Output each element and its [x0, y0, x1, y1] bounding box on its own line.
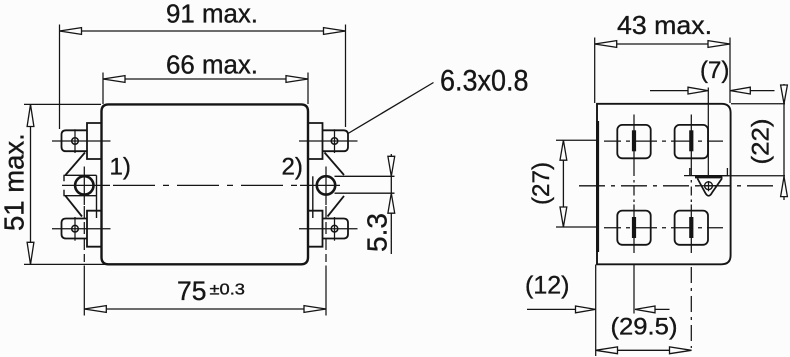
- svg-text:(29.5): (29.5): [611, 314, 678, 341]
- bottom-left tab hole: [72, 225, 79, 232]
- top-right tab crosshair vertical: [334, 129, 336, 153]
- svg-text:(27): (27): [528, 162, 555, 205]
- dimension (27) bottom extension: [556, 226, 597, 228]
- dimension 66 max right arrow: [286, 76, 308, 83]
- dimension 43 max left extension: [594, 38, 596, 104]
- dimension 91 max line: [60, 30, 346, 32]
- filter body outline: [102, 104, 309, 264]
- column 1 extension below body: [633, 265, 635, 314]
- tab A blade: [632, 130, 636, 151]
- dimension 75 left arrow: [84, 306, 106, 313]
- top-left faston tab: [62, 130, 88, 151]
- leader line 6.3x0.8: [348, 83, 434, 134]
- svg-text:91 max.: 91 max.: [166, 1, 258, 29]
- svg-text:(22): (22): [748, 119, 775, 165]
- column 1 center line lower: [633, 205, 635, 254]
- svg-text:6.3x0.8: 6.3x0.8: [440, 65, 529, 98]
- right flange slot bottom edge + 5.3 extension: [335, 192, 395, 194]
- dimension 66 max line: [103, 78, 308, 80]
- top-right tab hole: [331, 138, 338, 145]
- dimension 91 max left extension: [59, 25, 61, 130]
- dimension (29.5) line: [596, 349, 692, 351]
- horizontal center line right view: [579, 185, 778, 187]
- left flange slot top edge: [64, 175, 97, 181]
- bottom-left terminal step: [87, 211, 102, 247]
- right mounting hole extension dashed: [325, 206, 327, 262]
- left flange slot bottom edge: [64, 190, 97, 196]
- tab C (bottom-left) outline: [617, 211, 650, 245]
- right flange plate edge: [312, 176, 314, 218]
- dimension (22) line: [783, 84, 785, 200]
- dimension (7) left tail: [650, 90, 708, 92]
- top-right terminal step: [308, 123, 323, 159]
- side body left thick edge: [596, 121, 599, 252]
- right flange slot top edge + 5.3 extension: [335, 175, 395, 177]
- top-right faston tab: [323, 130, 349, 151]
- top-left tab crosshair horizontal: [52, 140, 111, 142]
- dimension (12) left tail: [527, 308, 596, 310]
- body top edge extension to (22): [731, 103, 785, 105]
- bottom-right tab hole: [331, 225, 338, 232]
- bottom-right tab crosshair vertical: [334, 217, 336, 241]
- column 2 center line middle dashed: [690, 167, 692, 205]
- svg-text:5.3: 5.3: [362, 213, 393, 252]
- dimension 66 max right extension: [307, 73, 309, 105]
- svg-text:±0.3: ±0.3: [210, 282, 246, 299]
- column 2 extension below body dashed: [690, 267, 692, 348]
- tab B blade: [689, 130, 693, 151]
- right flange lower slant: [328, 196, 345, 217]
- side body outline: [597, 104, 731, 264]
- dimension 91 max left arrow: [60, 28, 82, 35]
- dimension (29.5) right arrow: [670, 347, 692, 354]
- top row center line: [604, 140, 723, 142]
- dimension 5.3 bottom arrow: [388, 193, 395, 213]
- dimension 91 max right extension: [345, 25, 347, 128]
- dimension 66 max left extension: [102, 73, 104, 105]
- dimension (29.5) left arrow: [596, 347, 618, 354]
- earth tab blade bar: [695, 176, 723, 179]
- earth bar extension to (22): [723, 175, 785, 177]
- dimension 75 right arrow: [304, 306, 326, 313]
- left mounting hole extension dashed: [83, 206, 85, 262]
- column 2 center line upper: [690, 115, 692, 168]
- dimension (27) line: [562, 140, 564, 227]
- right hole crosshair: [300, 167, 340, 206]
- earth tab slot wall ticks: [690, 168, 728, 176]
- dimension (22) top arrow: [781, 85, 788, 104]
- dimension (27) top extension: [556, 139, 597, 141]
- dimension (12) right tail: [635, 308, 670, 310]
- left flange mounting hole: [75, 176, 93, 194]
- bottom-right tab crosshair horizontal: [299, 228, 358, 230]
- bottom-left faston tab: [62, 219, 88, 239]
- dimension (27) top arrow: [560, 140, 567, 160]
- earth tab plate line: [684, 175, 729, 177]
- dimension 51 max bottom extension: [24, 263, 107, 265]
- dimension (7) right tail: [730, 90, 774, 92]
- dimension (12) right arrow: [635, 306, 655, 313]
- left flange plate edge: [96, 175, 98, 218]
- column 1 center line middle dashed: [633, 167, 635, 205]
- dimension (27) bottom arrow: [560, 207, 567, 227]
- tab B (top-right) outline: [675, 125, 708, 158]
- right mounting flange upper slant: [325, 153, 345, 176]
- horizontal center line left view: [113, 184, 299, 186]
- bottom row center line: [604, 227, 723, 229]
- tab D (bottom-right) outline: [675, 211, 708, 245]
- svg-text:1): 1): [110, 154, 131, 181]
- dimension (7) right arrow: [730, 87, 750, 94]
- column 2 center line lower: [690, 205, 692, 254]
- tab D blade: [689, 217, 693, 238]
- dimension 43 max right extension: [729, 38, 731, 104]
- dimension 43 max line: [595, 43, 730, 45]
- dimension 51 max top extension: [24, 103, 101, 105]
- svg-text:(7): (7): [700, 57, 729, 84]
- left mounting flange upper slant: [66, 153, 86, 176]
- dimension 91 max right arrow: [324, 28, 346, 35]
- top-left tab crosshair vertical: [74, 129, 76, 153]
- svg-text:75: 75: [177, 276, 206, 306]
- right flange mounting hole: [317, 176, 335, 194]
- tab A (top-left) outline: [617, 125, 650, 158]
- bottom-right faston tab: [323, 219, 349, 239]
- svg-text:66 max.: 66 max.: [166, 52, 258, 80]
- dimension 66 max left arrow: [103, 76, 125, 83]
- svg-text:(12): (12): [525, 272, 569, 300]
- right mounting hole extension solid: [325, 266, 327, 316]
- dimension 51 max line: [30, 105, 32, 265]
- bottom-left tab crosshair vertical: [74, 217, 76, 241]
- svg-text:2): 2): [282, 154, 303, 181]
- body left edge extension below: [595, 265, 597, 357]
- column 1 center line upper: [633, 115, 635, 168]
- top-right tab crosshair horizontal: [299, 140, 358, 142]
- dimension 51 max bottom arrow: [27, 242, 34, 264]
- svg-text:43 max.: 43 max.: [617, 10, 712, 40]
- left hole crosshair: [62, 167, 110, 206]
- top-left tab hole: [72, 138, 79, 145]
- earth tab cross: [699, 181, 719, 191]
- dimension 5.3 top arrow: [388, 156, 395, 176]
- tab C blade: [632, 217, 636, 238]
- svg-text:51 max.: 51 max.: [0, 133, 30, 231]
- dimension 43 max left arrow: [595, 41, 617, 48]
- dimension (22) bottom arrow: [781, 177, 788, 197]
- left mounting hole extension solid: [83, 266, 85, 316]
- dimension (7) left arrow: [688, 87, 708, 94]
- earth tab funnel: [697, 178, 722, 195]
- bottom-left tab crosshair horizontal: [52, 228, 111, 230]
- top-left terminal step: [87, 123, 102, 159]
- dimension 51 max top arrow: [27, 105, 34, 127]
- dimension 43 max right arrow: [708, 41, 730, 48]
- dimension 5.3 line: [390, 154, 392, 254]
- earth tab vertical extension: [707, 88, 709, 178]
- left flange lower slant: [66, 196, 83, 217]
- dimension 75 line: [84, 308, 326, 310]
- earth tab hole: [705, 182, 713, 190]
- dimension (12) left arrow: [576, 306, 596, 313]
- bottom-right terminal step: [308, 211, 323, 247]
